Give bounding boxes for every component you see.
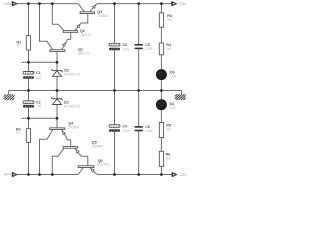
svg-text:2N3055: 2N3055 — [97, 14, 108, 18]
svg-text:2k2: 2k2 — [166, 47, 171, 51]
svg-text:-45V: -45V — [3, 173, 11, 177]
svg-text:2N2907: 2N2907 — [68, 126, 79, 130]
svg-text:100u: 100u — [123, 47, 130, 51]
svg-text:MJ2955: MJ2955 — [97, 163, 109, 167]
svg-text:+15V: +15V — [178, 2, 187, 6]
svg-text:2N2219: 2N2219 — [80, 33, 91, 37]
svg-text:1k: 1k — [16, 131, 20, 135]
svg-text:LED: LED — [170, 106, 177, 110]
svg-text:LED: LED — [170, 75, 177, 79]
svg-text:BZX85C15: BZX85C15 — [64, 104, 80, 108]
svg-text:-15V: -15V — [179, 173, 187, 177]
svg-text:2k2: 2k2 — [166, 157, 171, 161]
svg-text:2u2: 2u2 — [36, 76, 42, 80]
svg-text:2k2: 2k2 — [166, 127, 171, 131]
svg-text:BZX85C15: BZX85C15 — [64, 73, 80, 77]
svg-text:2k2: 2k2 — [167, 18, 172, 22]
svg-text:100n: 100n — [145, 47, 152, 51]
svg-text:C1: C1 — [36, 71, 41, 75]
svg-text:100u: 100u — [123, 129, 130, 133]
svg-text:2N2222: 2N2222 — [78, 51, 89, 55]
svg-text:2u2: 2u2 — [36, 104, 42, 108]
svg-text:1k: 1k — [17, 43, 21, 47]
svg-text:100n: 100n — [145, 129, 152, 133]
svg-text:+45V: +45V — [3, 2, 12, 6]
svg-text:2N2905: 2N2905 — [92, 145, 103, 149]
